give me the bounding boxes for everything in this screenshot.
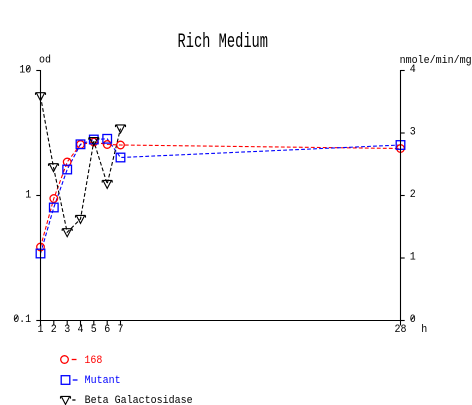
right axis (nmole/min/mg, linear) bbox=[400, 70, 402, 321]
svg-text:Beta Galactosidase: Beta Galactosidase bbox=[85, 395, 193, 405]
svg-text:4: 4 bbox=[410, 64, 416, 76]
slash of zero in right 0 bbox=[411, 316, 414, 320]
168 markers (red circles) bbox=[37, 138, 405, 251]
Beta Galactosidase markers (black down-triangles) bbox=[36, 93, 126, 237]
left axis (od, log scale) bbox=[40, 70, 42, 321]
left axis ticks bbox=[36, 71, 40, 321]
slash of zero in 0.1 bbox=[14, 316, 17, 320]
svg-text:5: 5 bbox=[91, 324, 97, 336]
legend marker Beta Galactosidase (black triangle) bbox=[61, 396, 71, 404]
series Mutant line bbox=[41, 139, 401, 254]
svg-text:3: 3 bbox=[410, 127, 416, 139]
legend dash Mutant bbox=[73, 379, 78, 381]
legend marker 168 (red circle) bbox=[61, 356, 69, 364]
svg-text:7: 7 bbox=[118, 324, 124, 336]
svg-text:28: 28 bbox=[395, 324, 407, 336]
svg-text:1: 1 bbox=[38, 324, 44, 336]
svg-text:4: 4 bbox=[78, 324, 84, 336]
svg-text:1: 1 bbox=[25, 190, 31, 202]
svg-text:h: h bbox=[421, 324, 427, 336]
svg-text:2: 2 bbox=[410, 189, 416, 201]
svg-text:od: od bbox=[39, 55, 51, 67]
svg-text:Rich Medium: Rich Medium bbox=[178, 31, 269, 54]
legend dash Beta Galactosidase bbox=[72, 399, 75, 401]
right axis ticks bbox=[401, 71, 405, 321]
svg-text:0: 0 bbox=[410, 314, 416, 326]
series 168 line bbox=[41, 142, 401, 247]
svg-text:3: 3 bbox=[64, 324, 70, 336]
legend dash 168 bbox=[72, 359, 77, 361]
bottom axis (hours) bbox=[41, 320, 401, 322]
svg-text:10: 10 bbox=[19, 65, 31, 77]
svg-text:0.1: 0.1 bbox=[13, 314, 31, 326]
slash of zero in 10 bbox=[26, 67, 29, 71]
svg-text:168: 168 bbox=[84, 355, 102, 367]
series Beta Galactosidase line bbox=[41, 96, 121, 232]
svg-text:6: 6 bbox=[104, 324, 110, 336]
Mutant markers (blue squares) bbox=[36, 135, 405, 258]
legend marker Mutant (blue square) bbox=[61, 376, 70, 385]
svg-text:Mutant: Mutant bbox=[85, 375, 121, 387]
bottom axis ticks bbox=[41, 321, 401, 326]
svg-text:2: 2 bbox=[51, 324, 57, 336]
svg-text:1: 1 bbox=[410, 252, 416, 264]
